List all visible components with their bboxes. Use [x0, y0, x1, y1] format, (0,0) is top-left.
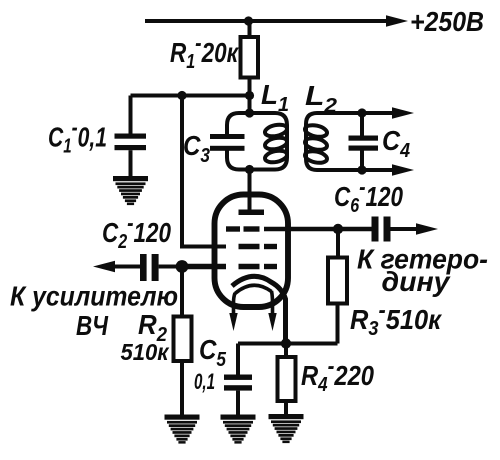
- arrow L2 out top: [392, 107, 414, 118]
- resistor R2: [174, 317, 192, 362]
- wire anode lead: [248, 170, 252, 213]
- arrow to +250V: [386, 15, 408, 26]
- tube grid row 2 (screen): [239, 244, 278, 249]
- resistor R1: [241, 37, 259, 78]
- heater lead left arrow: [229, 293, 237, 331]
- svg-text:С2-120: С2-120: [102, 210, 171, 253]
- ground (R2): [165, 415, 200, 444]
- wire R2 bottom: [180, 361, 184, 415]
- arrow to heterodyne: [416, 223, 438, 234]
- capacitor C6: [372, 217, 425, 242]
- inductor L1 coil: [264, 123, 288, 164]
- node top rail / R1: [244, 16, 253, 25]
- wire to C1: [131, 94, 250, 98]
- resistor R4: [278, 344, 296, 416]
- svg-text:ВЧ: ВЧ: [76, 310, 109, 341]
- tube U1 envelope: [215, 195, 289, 308]
- svg-text:С3: С3: [183, 130, 210, 167]
- wire grid2 feed (screen): [182, 96, 226, 247]
- wire grid1 lead right: [264, 227, 372, 232]
- ground (C5): [221, 415, 256, 444]
- tube grid row 1 (to heterodyne): [226, 226, 260, 231]
- node tank bottom: [245, 165, 254, 174]
- svg-text:С5: С5: [199, 334, 227, 371]
- capacitor C4: [349, 113, 379, 170]
- svg-text:R3-510к: R3-510к: [350, 297, 443, 340]
- wire R3 top: [336, 229, 340, 258]
- node C4 top: [357, 108, 366, 117]
- svg-text:С6-120: С6-120: [334, 174, 403, 217]
- svg-text:0,1: 0,1: [194, 369, 215, 394]
- node cathode/R4: [281, 338, 291, 348]
- heater lead right arrow: [268, 291, 276, 331]
- arrow to RF amplifier: [93, 261, 115, 272]
- wire R3 bottom: [336, 304, 340, 344]
- resistor R3: [328, 258, 347, 304]
- svg-text:С4: С4: [382, 125, 410, 162]
- tube grid row 3 (signal): [182, 264, 277, 269]
- tube cathode: [232, 276, 286, 343]
- tank loop L1/C3: [227, 113, 287, 170]
- capacitor C5: [224, 344, 252, 416]
- node C4 bottom: [357, 165, 366, 174]
- tube heater arc: [235, 285, 272, 293]
- tube anode plate: [239, 210, 265, 216]
- svg-text:К усилителю: К усилителю: [10, 281, 178, 312]
- node grid1/R3/C6: [333, 224, 343, 234]
- node grid2 branch: [177, 91, 186, 100]
- svg-text:R4-220: R4-220: [301, 353, 374, 396]
- svg-text:510к: 510к: [121, 339, 170, 365]
- svg-text:L1: L1: [261, 79, 289, 116]
- wire +250V top rail: [145, 19, 400, 23]
- capacitor C1: [115, 96, 147, 178]
- arrow L2 out bottom: [392, 164, 414, 175]
- ground (R4): [269, 414, 304, 443]
- node tank top: [245, 108, 254, 117]
- node R1 bottom / C1 wire: [245, 91, 254, 100]
- wire R2 top: [180, 267, 184, 318]
- wire cathode bus: [238, 342, 338, 346]
- capacitor C3: [210, 134, 245, 151]
- inductor L2 loop: [306, 113, 400, 170]
- wire R1 column: [248, 21, 252, 113]
- svg-text:С1-0,1: С1-0,1: [48, 115, 107, 158]
- svg-text:R1-20к: R1-20к: [170, 30, 239, 73]
- capacitor C2: [105, 254, 182, 281]
- ground (C1): [113, 176, 148, 205]
- svg-text:+250В: +250В: [410, 6, 484, 37]
- svg-text:дину: дину: [382, 266, 451, 297]
- inductor L2 coil: [304, 123, 328, 164]
- node C2/R2/grid3: [176, 260, 189, 273]
